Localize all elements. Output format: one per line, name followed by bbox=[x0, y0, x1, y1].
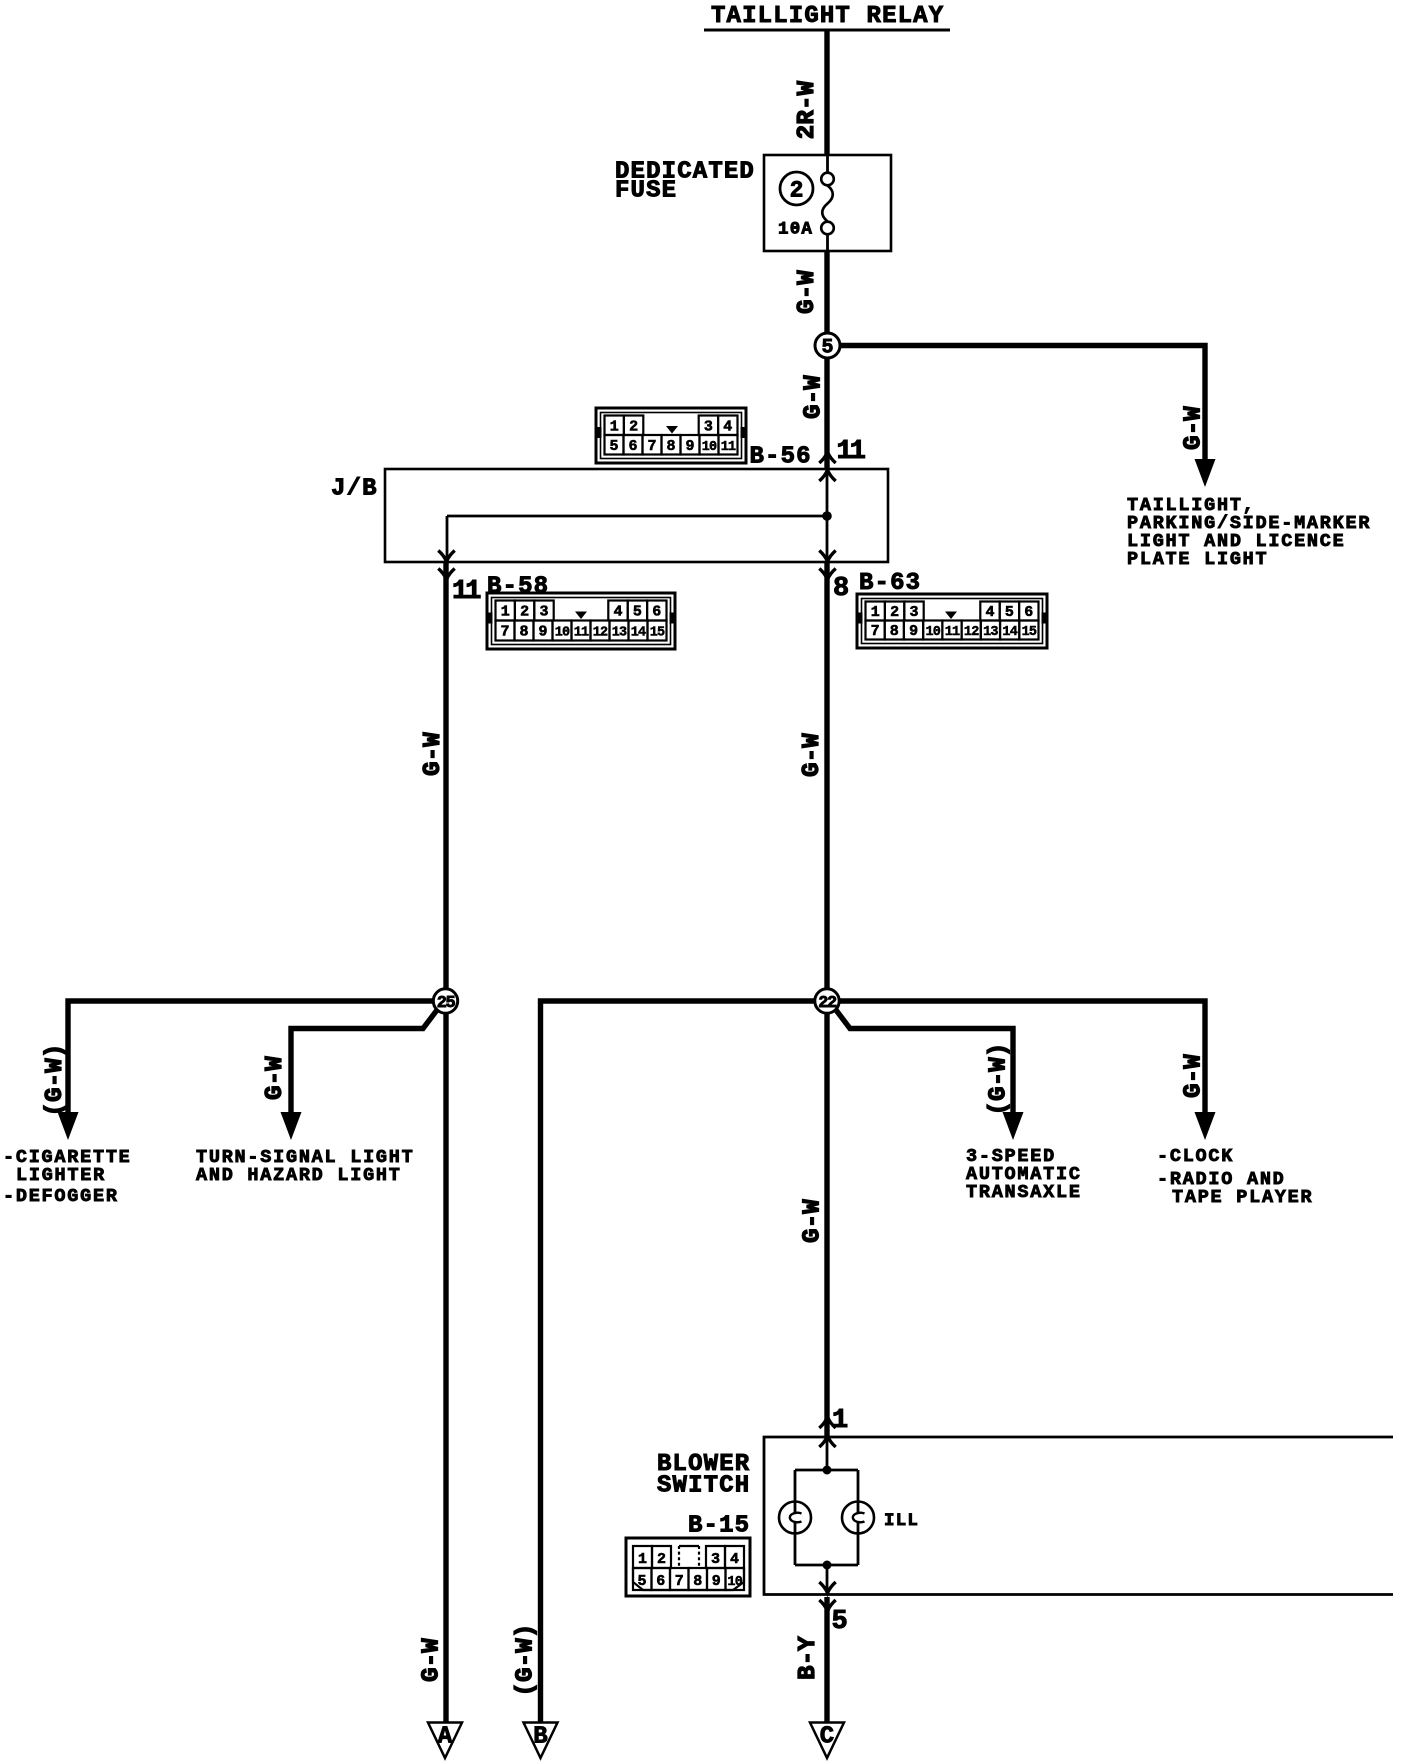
svg-text:7: 7 bbox=[647, 438, 656, 455]
dedicated fuse label bbox=[615, 159, 755, 205]
svg-text:LIGHTER: LIGHTER bbox=[16, 1165, 106, 1186]
arrowhead to taillight bbox=[1195, 459, 1216, 487]
destination text: cigarette lighter / defogger bbox=[3, 1147, 132, 1207]
svg-text:G-W: G-W bbox=[262, 1056, 289, 1100]
svg-text:ILL: ILL bbox=[884, 1511, 919, 1531]
svg-text:5: 5 bbox=[1005, 604, 1014, 621]
svg-text:12: 12 bbox=[964, 625, 979, 640]
wire branch: node 25 to turn-signal light bbox=[291, 1010, 437, 1112]
svg-text:G-W: G-W bbox=[799, 733, 826, 777]
blower switch internal illumination lamps circuit bbox=[795, 1437, 858, 1594]
svg-text:B-56: B-56 bbox=[750, 444, 812, 471]
svg-text:6: 6 bbox=[656, 1573, 665, 1590]
svg-text:B-58: B-58 bbox=[487, 574, 549, 601]
node 22: splice circle bbox=[815, 989, 839, 1013]
joint arrow B bbox=[524, 1723, 558, 1759]
blower switch label bbox=[657, 1451, 750, 1500]
wire branch: node 5 to taillight/parking lights bbox=[834, 346, 1205, 462]
svg-text:1: 1 bbox=[501, 604, 510, 621]
svg-text:14: 14 bbox=[1002, 625, 1017, 640]
svg-text:11: 11 bbox=[837, 437, 866, 467]
wire G-W: node 25 to joint A bbox=[443, 1013, 448, 1722]
svg-text:G-W: G-W bbox=[420, 732, 447, 776]
svg-text:11: 11 bbox=[574, 626, 589, 641]
joint arrow C bbox=[810, 1723, 844, 1759]
svg-text:G-W: G-W bbox=[1181, 1054, 1208, 1098]
svg-text:10: 10 bbox=[727, 1575, 742, 1590]
title: TAILLIGHT RELAY bbox=[704, 3, 950, 32]
svg-text:2: 2 bbox=[629, 418, 638, 435]
svg-text:9: 9 bbox=[909, 623, 918, 640]
joint arrow A bbox=[428, 1723, 462, 1759]
wire: node 22 left to joint B column bbox=[541, 1001, 821, 1722]
svg-text:12: 12 bbox=[593, 626, 608, 641]
svg-text:7: 7 bbox=[871, 623, 880, 640]
svg-text:3: 3 bbox=[539, 604, 548, 621]
svg-text:A: A bbox=[438, 1724, 453, 1751]
fuse F2 10A box bbox=[764, 155, 891, 251]
svg-text:B-Y: B-Y bbox=[795, 1636, 822, 1680]
svg-text:SWITCH: SWITCH bbox=[657, 1473, 750, 1500]
blower switch box bbox=[764, 1437, 1393, 1595]
svg-text:6: 6 bbox=[628, 438, 637, 455]
connector B-56 icon bbox=[595, 408, 747, 463]
junction block J/B bbox=[385, 469, 888, 562]
svg-text:1: 1 bbox=[871, 604, 880, 621]
wire G-W: node 5 to J/B connector B-56 bbox=[824, 346, 829, 469]
fuse element: terminals and S-link bbox=[821, 155, 834, 251]
svg-text:8: 8 bbox=[890, 623, 899, 640]
svg-text:3: 3 bbox=[711, 1551, 720, 1568]
connector pass-through symbol B-56 pin 11 bbox=[819, 452, 835, 481]
svg-text:1: 1 bbox=[638, 1551, 647, 1568]
svg-text:6: 6 bbox=[652, 604, 661, 621]
svg-text:14: 14 bbox=[631, 626, 646, 641]
illumination lamp right (ILL) bbox=[842, 1502, 874, 1534]
svg-text:-CLOCK: -CLOCK bbox=[1157, 1146, 1234, 1167]
svg-text:C: C bbox=[820, 1724, 834, 1751]
svg-text:6: 6 bbox=[1024, 604, 1033, 621]
svg-text:5: 5 bbox=[821, 337, 833, 360]
svg-text:11: 11 bbox=[945, 625, 960, 640]
svg-text:3: 3 bbox=[704, 418, 713, 435]
connector pass-through symbol B-63 pin 8 bbox=[819, 551, 835, 580]
svg-text:TAILLIGHT RELAY: TAILLIGHT RELAY bbox=[711, 3, 944, 30]
svg-text:5: 5 bbox=[609, 438, 618, 455]
illumination lamp left bbox=[779, 1502, 811, 1534]
wire G-W: node 22 to blower switch bbox=[824, 1013, 829, 1437]
connector pass-through symbol B-15 pin 5 bbox=[819, 1582, 835, 1611]
svg-text:J/B: J/B bbox=[331, 476, 378, 503]
svg-text:G-W: G-W bbox=[419, 1638, 446, 1682]
svg-text:2: 2 bbox=[890, 604, 899, 621]
wire G-W: B-63 to node 22 bbox=[824, 562, 829, 1001]
svg-text:4: 4 bbox=[730, 1551, 739, 1568]
svg-text:13: 13 bbox=[983, 625, 998, 640]
destination text: 3-speed automatic transaxle bbox=[966, 1146, 1082, 1203]
svg-text:5: 5 bbox=[633, 604, 642, 621]
wire B-Y: blower switch to joint C bbox=[824, 1597, 829, 1722]
svg-text:4: 4 bbox=[613, 604, 622, 621]
svg-text:G-W: G-W bbox=[1181, 406, 1208, 450]
svg-text:13: 13 bbox=[612, 626, 627, 641]
wire branch: node 22 to 3-speed automatic transaxle bbox=[836, 1010, 1013, 1112]
connector B-15 icon bbox=[626, 1538, 750, 1596]
node 25: splice circle bbox=[433, 989, 457, 1013]
svg-text:5: 5 bbox=[637, 1573, 646, 1590]
destination text: clock / radio and tape player bbox=[1157, 1146, 1313, 1208]
wire branch: node 22 to clock/radio bbox=[834, 1001, 1205, 1112]
svg-text:4: 4 bbox=[723, 418, 732, 435]
svg-text:8: 8 bbox=[833, 574, 848, 604]
svg-text:10: 10 bbox=[925, 625, 940, 640]
svg-text:10A: 10A bbox=[778, 220, 813, 240]
svg-text:8: 8 bbox=[519, 624, 528, 641]
connector B-58 icon bbox=[486, 593, 676, 649]
svg-text:B-15: B-15 bbox=[688, 1513, 750, 1540]
fuse number 2 circle bbox=[780, 172, 813, 205]
svg-text:-DEFOGGER: -DEFOGGER bbox=[3, 1186, 119, 1207]
node 5: splice circle bbox=[815, 333, 840, 360]
svg-text:3: 3 bbox=[909, 604, 918, 621]
svg-text:(G-W): (G-W) bbox=[986, 1042, 1013, 1115]
svg-text:15: 15 bbox=[650, 626, 665, 641]
wire 2R-W: taillight relay to dedicated fuse bbox=[824, 30, 829, 156]
svg-text:G-W: G-W bbox=[801, 375, 828, 419]
svg-text:4: 4 bbox=[985, 604, 994, 621]
svg-text:7: 7 bbox=[675, 1573, 684, 1590]
svg-text:PLATE LIGHT: PLATE LIGHT bbox=[1127, 549, 1268, 570]
svg-text:5: 5 bbox=[832, 1607, 847, 1637]
svg-text:9: 9 bbox=[685, 438, 694, 455]
svg-text:10: 10 bbox=[702, 440, 717, 455]
connector pass-through symbol B-15 pin 1 bbox=[819, 1417, 835, 1447]
svg-text:FUSE: FUSE bbox=[615, 178, 677, 205]
svg-text:2R-W: 2R-W bbox=[794, 80, 821, 139]
svg-text:B: B bbox=[533, 1724, 547, 1751]
svg-text:11: 11 bbox=[721, 440, 736, 455]
svg-text:(G-W): (G-W) bbox=[513, 1623, 540, 1696]
svg-text:22: 22 bbox=[818, 994, 837, 1013]
svg-text:1: 1 bbox=[610, 418, 619, 435]
svg-text:G-W: G-W bbox=[794, 270, 821, 314]
svg-text:7: 7 bbox=[500, 624, 509, 641]
wire G-W: B-58 to node 25 bbox=[443, 562, 448, 1001]
svg-text:11: 11 bbox=[452, 577, 481, 607]
svg-text:15: 15 bbox=[1022, 625, 1037, 640]
junction dot inside J/B bbox=[822, 511, 832, 521]
destination text: turn-signal light and hazard light bbox=[196, 1147, 414, 1186]
svg-text:TAPE PLAYER: TAPE PLAYER bbox=[1172, 1187, 1313, 1208]
connector pass-through symbol B-58 pin 11 bbox=[438, 551, 454, 580]
wire G-W: fuse to node 5 bbox=[824, 251, 829, 346]
svg-text:9: 9 bbox=[538, 624, 547, 641]
svg-text:2: 2 bbox=[790, 178, 804, 204]
svg-text:8: 8 bbox=[693, 1573, 702, 1590]
svg-text:AND HAZARD LIGHT: AND HAZARD LIGHT bbox=[196, 1165, 402, 1186]
svg-text:G-W: G-W bbox=[800, 1199, 827, 1243]
connector B-63 icon bbox=[856, 594, 1048, 648]
J/B internal wire: B-56/11 down and across to exits bbox=[447, 469, 827, 562]
wire branch: node 25 to cigarette lighter/defogger bbox=[68, 1001, 440, 1112]
svg-text:TRANSAXLE: TRANSAXLE bbox=[966, 1182, 1082, 1203]
destination text: taillight, parking/side-marker light and licence plate light bbox=[1127, 495, 1371, 570]
svg-text:8: 8 bbox=[666, 438, 675, 455]
svg-text:10: 10 bbox=[555, 626, 570, 641]
svg-text:(G-W): (G-W) bbox=[42, 1043, 69, 1116]
svg-text:2: 2 bbox=[520, 604, 529, 621]
svg-text:2: 2 bbox=[657, 1551, 666, 1568]
svg-text:9: 9 bbox=[712, 1573, 721, 1590]
svg-text:25: 25 bbox=[437, 994, 456, 1013]
